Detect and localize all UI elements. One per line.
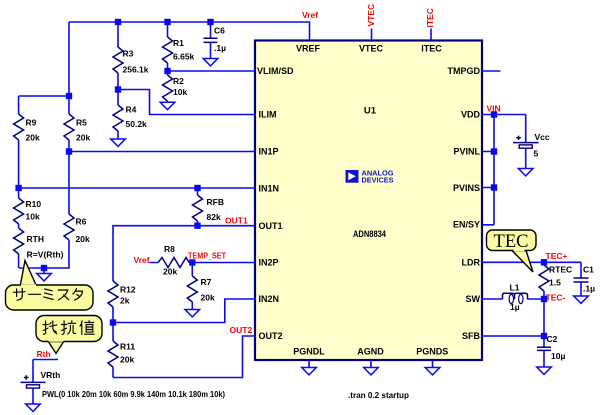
node R1/R2 VLIM junction	[164, 68, 170, 74]
svg-text:L1: L1	[510, 283, 520, 293]
voltage source VRth	[21, 370, 61, 388]
svg-text:IN1P: IN1P	[259, 147, 279, 157]
svg-text:LDR: LDR	[462, 258, 481, 268]
resistor R11	[108, 323, 135, 378]
svg-text:TEC: TEC	[494, 231, 529, 252]
ground PGNDL	[302, 360, 317, 375]
node R5/IN1P junction	[66, 148, 72, 154]
wire LDR / TEC+ rail	[482, 261, 581, 263]
svg-text:DEVICES: DEVICES	[362, 177, 394, 184]
resistor R1	[163, 22, 195, 71]
wire VTEC pin stub	[371, 29, 373, 41]
svg-text:50.2k: 50.2k	[126, 119, 148, 129]
wire TMPGD stub	[482, 70, 501, 72]
svg-text:R10: R10	[26, 199, 42, 209]
wire R9/R5 top link	[19, 96, 69, 114]
wire TEC- to SFB	[543, 299, 545, 336]
wire IN2P	[192, 262, 255, 264]
svg-text:SFB: SFB	[462, 331, 481, 341]
resistor RTH	[14, 224, 64, 268]
svg-text:RTH: RTH	[27, 234, 44, 244]
svg-text:.tran 0.2 startup: .tran 0.2 startup	[348, 390, 409, 400]
svg-text:R3: R3	[123, 49, 134, 59]
svg-text:20k: 20k	[76, 133, 90, 143]
svg-text:6.65k: 6.65k	[173, 52, 195, 62]
svg-text:OUT2: OUT2	[259, 331, 283, 341]
svg-text:RTEC: RTEC	[549, 265, 572, 275]
resistor R12	[108, 281, 136, 323]
ground under C1	[574, 296, 589, 303]
svg-text:R9: R9	[26, 118, 37, 128]
wire IN2N	[113, 299, 255, 323]
svg-text:256.1k: 256.1k	[123, 65, 149, 75]
node Vref top junction C6	[207, 19, 213, 25]
svg-text:TEC-: TEC-	[546, 293, 566, 303]
resistor R6	[19, 152, 90, 269]
svg-text:20k: 20k	[201, 293, 215, 303]
ground under R2	[160, 102, 175, 109]
svg-text:PVINS: PVINS	[453, 183, 480, 193]
svg-text:IN2N: IN2N	[259, 294, 280, 304]
resistor RFB	[193, 188, 224, 226]
ground under RTH/R6 node	[37, 268, 52, 281]
svg-text:PWL(0 10k 20m 10k 60m 9.9k 140: PWL(0 10k 20m 10k 60m 9.9k 140m 10.1k 18…	[42, 389, 225, 399]
svg-text:OUT2: OUT2	[230, 325, 253, 335]
node R8/R7/IN2P junction	[189, 259, 195, 265]
svg-text:TEMP_SET: TEMP_SET	[188, 251, 227, 261]
ground AGND	[364, 360, 379, 375]
wire IN1N	[19, 187, 255, 189]
svg-text:C6: C6	[214, 26, 225, 36]
wire OUT1	[113, 226, 255, 281]
voltage source Vcc	[513, 115, 550, 169]
resistor R3	[113, 22, 149, 90]
wire Vref top rail	[69, 22, 310, 96]
node RFB top junction	[194, 185, 200, 191]
svg-text:EN/SY: EN/SY	[453, 219, 480, 229]
svg-text:PGNDL: PGNDL	[293, 347, 325, 357]
wire IN1P	[69, 151, 255, 153]
capacitor C1	[574, 262, 596, 296]
svg-text:10k: 10k	[26, 212, 40, 222]
svg-text:U1: U1	[364, 106, 377, 117]
resistor R8	[149, 244, 192, 277]
svg-text:VTEC: VTEC	[366, 4, 376, 27]
svg-text:R5: R5	[76, 118, 87, 128]
katakana mi	[44, 289, 54, 300]
ground under C2	[537, 367, 552, 374]
svg-text:TEC+: TEC+	[546, 251, 568, 261]
svg-text:R11: R11	[120, 342, 135, 352]
svg-text:20k: 20k	[26, 133, 40, 143]
ground under C6	[203, 59, 218, 66]
svg-text:82k: 82k	[207, 212, 221, 222]
wire Rth net	[33, 360, 58, 383]
node Vref top junction R3	[115, 19, 121, 25]
wire VDD/PVIN rail	[482, 115, 526, 225]
node R3/R4 junction	[115, 86, 121, 92]
svg-text:Rth: Rth	[37, 349, 51, 359]
callout thermistor (saamisuta)	[6, 261, 94, 311]
svg-text:IN1N: IN1N	[259, 184, 280, 194]
node VDD junction	[491, 111, 497, 117]
resistor R2	[163, 71, 188, 102]
svg-text:PGNDS: PGNDS	[416, 347, 448, 357]
resistor RTEC	[539, 262, 572, 299]
svg-text:R2: R2	[173, 76, 184, 86]
capacitor C6	[204, 22, 227, 59]
resistor R7	[187, 263, 215, 310]
resistor R9	[14, 114, 40, 188]
svg-text:10k: 10k	[173, 87, 187, 97]
svg-text:R4: R4	[126, 105, 137, 115]
node Vref top junction R1	[164, 19, 170, 25]
resistor R4	[113, 90, 147, 140]
kanji tei (resist)	[43, 321, 57, 334]
svg-text:VRth: VRth	[41, 370, 61, 380]
svg-text:VREF: VREF	[296, 44, 321, 54]
svg-text:OUT1: OUT1	[259, 221, 283, 231]
wire OUT2	[113, 336, 255, 378]
svg-text:TMPGD: TMPGD	[448, 66, 481, 76]
wire VLIM/SD	[168, 70, 256, 72]
svg-text:1µ: 1µ	[510, 302, 520, 312]
kanji chi (value)	[80, 321, 94, 335]
ground under Vcc	[518, 169, 533, 176]
logo Analog Devices	[346, 170, 395, 184]
ground under R4	[111, 139, 126, 146]
svg-text:R6: R6	[76, 217, 87, 227]
svg-text:1.5: 1.5	[549, 278, 561, 288]
IC U1 ADN8834 body	[255, 41, 482, 361]
node ground junction RTH/R6	[41, 265, 47, 271]
node R12/R11/IN2N junction	[110, 319, 116, 325]
svg-text:R7: R7	[201, 277, 212, 287]
svg-text:R8: R8	[164, 244, 175, 254]
svg-text:VTEC: VTEC	[359, 44, 384, 54]
svg-text:IN2P: IN2P	[259, 258, 279, 268]
svg-text:20k: 20k	[76, 234, 90, 244]
wire SFB	[482, 335, 544, 337]
kanji kou (resist against)	[62, 321, 76, 335]
svg-text:PVINL: PVINL	[453, 147, 480, 157]
svg-text:ILIM: ILIM	[259, 110, 277, 120]
svg-text:Vref: Vref	[134, 255, 150, 265]
svg-text:VDD: VDD	[461, 110, 481, 120]
node PVINS junction	[491, 184, 497, 190]
svg-text:2k: 2k	[120, 296, 130, 306]
svg-text:SW: SW	[466, 294, 481, 304]
svg-text:Vcc: Vcc	[535, 132, 550, 142]
katakana su	[58, 290, 69, 300]
wire ILIM	[118, 90, 255, 115]
capacitor C2	[537, 334, 565, 367]
svg-text:5: 5	[534, 149, 539, 159]
svg-text:Vref: Vref	[302, 10, 318, 20]
svg-text:20k: 20k	[120, 355, 134, 365]
svg-text:C1: C1	[583, 265, 594, 275]
svg-text:20k: 20k	[163, 267, 177, 277]
node RFB bottom OUT1 junction	[194, 223, 200, 229]
svg-text:ITEC: ITEC	[421, 44, 442, 54]
katakana long dash	[29, 293, 41, 295]
node R5 top junction	[66, 93, 72, 99]
ground PGNDS	[425, 360, 440, 375]
ground under VRth	[26, 404, 41, 411]
svg-text:OUT1: OUT1	[225, 216, 248, 226]
node R9/R10/IN1N junction	[15, 185, 21, 191]
svg-text:10µ: 10µ	[551, 351, 565, 361]
svg-text:.1µ: .1µ	[583, 284, 595, 294]
svg-text:VLIM/SD: VLIM/SD	[257, 66, 294, 76]
node TEC+ junction	[541, 259, 547, 265]
inductor L1	[482, 283, 544, 313]
svg-text:R=V(Rth): R=V(Rth)	[27, 249, 64, 259]
svg-text:R1: R1	[173, 38, 184, 48]
svg-text:ADN8834: ADN8834	[353, 229, 386, 239]
svg-text:.1µ: .1µ	[214, 43, 226, 53]
svg-text:C2: C2	[547, 334, 558, 344]
katakana sa	[14, 289, 26, 301]
svg-text:R12: R12	[120, 285, 136, 295]
wire ITEC pin stub	[430, 29, 432, 41]
resistor R5	[64, 114, 90, 152]
callout TEC	[487, 230, 537, 272]
node TEC- junction	[541, 296, 547, 302]
ground under R7	[185, 310, 200, 317]
resistor R10	[14, 188, 42, 224]
node SFB/C2 junction	[541, 333, 547, 339]
svg-text:RFB: RFB	[207, 197, 224, 207]
wire VRth to ground	[32, 388, 34, 404]
svg-text:AGND: AGND	[357, 347, 384, 357]
callout resistance value (teikouchi)	[36, 316, 102, 354]
katakana ta	[73, 289, 83, 301]
node PVINL junction	[491, 148, 497, 154]
svg-text:ITEC: ITEC	[425, 8, 435, 27]
